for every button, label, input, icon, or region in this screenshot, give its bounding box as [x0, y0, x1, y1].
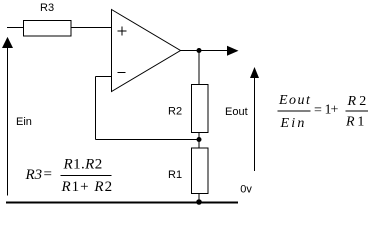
resistor R3: [24, 21, 72, 37]
wire 0v rail: [6, 202, 238, 204]
wire feedback vertical: [95, 77, 97, 140]
wire feedback horizontal: [96, 139, 200, 141]
svg-text:R3: R3: [40, 2, 54, 14]
wire inverting input: [96, 76, 112, 78]
svg-text:R1: R1: [168, 169, 182, 181]
node output junction: [197, 48, 202, 53]
svg-text:Ein: Ein: [16, 116, 32, 128]
arrow Eout: [250, 67, 259, 171]
svg-text:Eout: Eout: [278, 93, 311, 108]
svg-text:Ein: Ein: [280, 116, 307, 131]
wire R2 to R1: [198, 133, 200, 149]
node 0v junction: [196, 199, 202, 205]
svg-text:R2: R2: [347, 94, 369, 109]
svg-text:R3: R3: [25, 167, 43, 183]
svg-text:=: =: [314, 103, 322, 118]
wire output: [180, 50, 228, 52]
svg-text:+: +: [331, 103, 339, 118]
svg-text:R2: R2: [168, 106, 182, 118]
svg-text:R1: R1: [345, 115, 367, 130]
op-amp U1: [112, 10, 181, 92]
svg-text:=: =: [44, 167, 52, 183]
formula R3 = R1.R2 / (R1+R2): [25, 157, 114, 196]
svg-text:R1+ R2: R1+ R2: [61, 179, 114, 195]
wire input left segment: [7, 27, 24, 29]
arrow output head: [227, 46, 239, 56]
formula Eout/Ein = 1 + R2/R1: [278, 93, 369, 131]
arrow Ein: [2, 37, 13, 196]
resistor R1: [192, 148, 209, 194]
svg-text:0v: 0v: [240, 184, 252, 196]
wire R1 to 0v rail: [198, 194, 200, 203]
svg-text:Eout: Eout: [225, 106, 248, 118]
node feedback junction: [197, 137, 202, 142]
wire R3 to op-amp + input: [71, 27, 112, 29]
svg-text:R1.R2: R1.R2: [63, 157, 103, 173]
wire output to R2: [198, 51, 200, 85]
resistor R2: [192, 85, 209, 133]
